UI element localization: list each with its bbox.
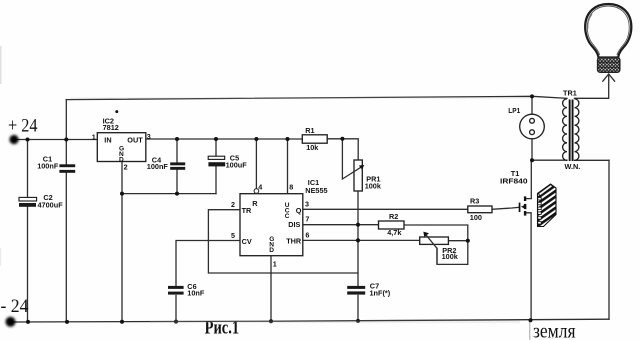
svg-text:TR1: TR1: [563, 89, 577, 98]
svg-text:Q: Q: [296, 206, 302, 215]
svg-text:7812: 7812: [103, 123, 119, 132]
svg-text:1: 1: [92, 132, 96, 141]
svg-text:R: R: [252, 199, 258, 208]
svg-text:2: 2: [231, 200, 235, 209]
svg-text:R2: R2: [389, 212, 398, 221]
svg-text:D: D: [269, 247, 274, 254]
svg-text:+ 24: + 24: [8, 116, 38, 136]
svg-text:W.N.: W.N.: [565, 162, 581, 171]
svg-text:земля: земля: [533, 321, 576, 340]
svg-text:7: 7: [305, 215, 309, 224]
svg-text:100nF: 100nF: [37, 162, 59, 171]
svg-text:100nF: 100nF: [147, 162, 169, 171]
svg-text:C: C: [285, 213, 290, 220]
svg-text:DIS: DIS: [288, 220, 300, 229]
svg-text:10k: 10k: [306, 143, 319, 152]
svg-text:2: 2: [124, 163, 128, 172]
svg-text:100k: 100k: [365, 182, 382, 191]
svg-text:100uF: 100uF: [226, 160, 248, 169]
svg-text:1nF(*): 1nF(*): [370, 288, 391, 297]
svg-text:1: 1: [273, 260, 277, 269]
svg-text:LP1: LP1: [508, 106, 520, 115]
svg-text:THR: THR: [286, 236, 302, 245]
svg-text:4,7k: 4,7k: [387, 228, 402, 237]
svg-text:4: 4: [258, 183, 262, 192]
svg-text:TR: TR: [242, 206, 252, 215]
svg-text:10nF: 10nF: [187, 288, 205, 297]
svg-text:6: 6: [305, 231, 309, 240]
svg-text:- 24: - 24: [1, 297, 29, 317]
svg-text:3: 3: [305, 199, 309, 208]
svg-text:100: 100: [470, 213, 482, 222]
svg-text:R1: R1: [305, 126, 314, 135]
svg-text:CV: CV: [242, 237, 252, 246]
svg-text:OUT: OUT: [127, 135, 143, 144]
svg-text:100k: 100k: [442, 252, 459, 261]
svg-text:IRF840: IRF840: [500, 177, 528, 186]
svg-text:4700uF: 4700uF: [38, 200, 64, 209]
svg-text:R3: R3: [470, 196, 479, 205]
svg-text:8: 8: [289, 182, 293, 191]
svg-text:3: 3: [147, 132, 151, 141]
svg-text:IN: IN: [104, 136, 111, 145]
svg-text:5: 5: [231, 231, 235, 240]
svg-text:NE555: NE555: [305, 186, 327, 195]
